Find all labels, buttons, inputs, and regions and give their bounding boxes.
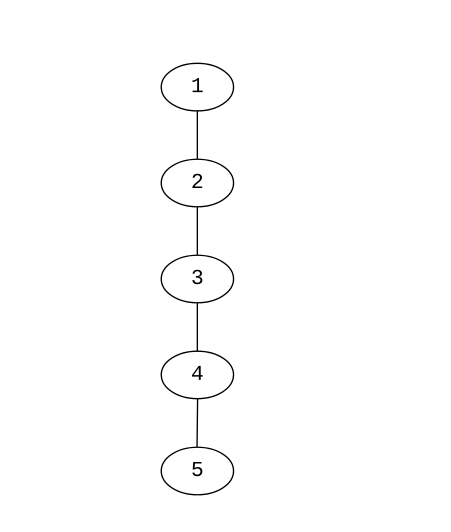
node 4	[161, 351, 233, 399]
wire edge 2-3	[196, 207, 198, 256]
node 2	[161, 159, 233, 207]
node 5	[161, 447, 233, 495]
node 3	[161, 255, 233, 303]
wire edge 4-5	[196, 399, 199, 448]
wire edge 3-4	[196, 303, 198, 351]
wire edge 1-2	[196, 111, 198, 159]
node 1	[161, 63, 233, 111]
